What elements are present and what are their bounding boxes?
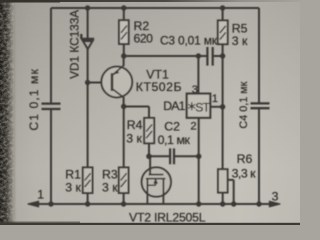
- wire C3 right to R5 node: [213, 55, 223, 57]
- wire VD1 anode lead from top rail: [87, 8, 89, 39]
- svg-text:3 к: 3 к: [126, 132, 142, 146]
- VT2 drain leg: [162, 179, 164, 204]
- svg-text:С3 0,01 мк: С3 0,01 мк: [160, 33, 218, 47]
- svg-text:2: 2: [190, 120, 196, 132]
- wire DA1 pin2 lead: [198, 118, 200, 204]
- capacitor C1: [42, 104, 61, 109]
- wire left branch lower (C1 bottom lead): [50, 109, 52, 204]
- terminal 3 arrow: [269, 201, 280, 207]
- VT2 gate electrode: [149, 174, 164, 176]
- resistor R5: [218, 20, 228, 44]
- wire right branch upper: [258, 8, 260, 103]
- svg-text:ST: ST: [195, 101, 210, 115]
- node C3/R5 junction: [220, 53, 225, 58]
- IC DA1: [187, 94, 211, 118]
- wire emitter net: [124, 55, 208, 57]
- wire gate net: [149, 155, 170, 157]
- wire DA1 pin1 lead: [210, 106, 222, 108]
- capacitor C2: [170, 148, 174, 164]
- wire VD1 to base node: [87, 49, 89, 168]
- node R6 bottom rail: [220, 201, 225, 206]
- svg-text:C1 0,1 мк: C1 0,1 мк: [27, 68, 41, 130]
- node collector junction: [121, 104, 126, 109]
- node R1 bottom rail: [85, 201, 90, 206]
- VT2 channel bar: [146, 178, 166, 180]
- resistor R1: [83, 167, 93, 193]
- wire collector to R4: [124, 107, 149, 118]
- svg-text:3,3 к: 3,3 к: [232, 167, 257, 181]
- bottom photo edge: [0, 223, 300, 225]
- zener diode VD1 anode triangle: [83, 41, 93, 49]
- wire left branch upper (C1 top lead): [50, 8, 52, 104]
- wire C2 right to pin2 line: [174, 155, 199, 157]
- svg-text:КТ502Б: КТ502Б: [136, 80, 182, 94]
- DA1 asterisk: [188, 102, 195, 110]
- svg-text:R1: R1: [65, 167, 81, 181]
- node right branch rail: [256, 201, 261, 206]
- terminal 1 arrow: [28, 201, 39, 207]
- svg-text:R3: R3: [102, 167, 118, 181]
- node R6 tap rail: [231, 201, 236, 206]
- VT2 source leg: [146, 179, 148, 204]
- svg-text:R6: R6: [237, 152, 253, 166]
- node VD1 top: [85, 5, 90, 10]
- node R5 top: [220, 5, 225, 10]
- node C1 bottom rail: [48, 201, 53, 206]
- svg-text:3 к: 3 к: [102, 181, 118, 195]
- svg-text:3: 3: [272, 189, 279, 203]
- svg-text:VD1 КС133А: VD1 КС133А: [67, 10, 81, 79]
- top photo edge: [0, 0, 1, 1]
- svg-text:DA1: DA1: [163, 99, 185, 113]
- svg-text:3 к: 3 к: [232, 34, 248, 48]
- node pin2/gate junction: [196, 154, 201, 159]
- node R4/gate junction: [146, 154, 152, 160]
- svg-text:C2: C2: [164, 120, 180, 134]
- svg-text:R4: R4: [127, 118, 143, 132]
- wire R5/C3 node down to R6: [222, 56, 224, 169]
- node base junction: [85, 80, 90, 85]
- node pin2 bottom rail: [196, 201, 201, 206]
- resistor R3: [119, 167, 129, 193]
- wire R1 bottom lead: [87, 193, 89, 204]
- resistor R4: [144, 118, 154, 143]
- svg-text:0,1 мк: 0,1 мк: [158, 133, 191, 147]
- svg-text:VT2 IRL2505L: VT2 IRL2505L: [129, 210, 206, 224]
- wire R6 side tap: [228, 180, 234, 204]
- svg-text:1: 1: [212, 93, 218, 105]
- wire base: [88, 82, 112, 84]
- capacitor C4: [251, 103, 270, 108]
- VT2 gate lead: [149, 156, 151, 175]
- node R2 top: [121, 5, 126, 10]
- svg-text:620: 620: [134, 32, 154, 46]
- VT2 substrate stub with arrow: [147, 179, 155, 185]
- svg-text:1: 1: [37, 188, 44, 202]
- svg-text:3 к: 3 к: [65, 181, 81, 195]
- svg-text:C4 0,1 мк: C4 0,1 мк: [238, 81, 250, 128]
- transistor VT1: [101, 67, 132, 98]
- left page spine shadow: [0, 0, 17, 225]
- capacitor C3: [207, 47, 212, 66]
- zener diode VD1 cathode bar: [81, 34, 94, 39]
- node emitter / R2: [121, 53, 126, 58]
- node R3 bottom rail: [121, 201, 126, 206]
- resistor R6: [218, 169, 228, 192]
- node pin1 junction: [220, 104, 225, 109]
- wire DA1 pin3 lead: [197, 56, 199, 94]
- resistor R2: [123, 8, 125, 20]
- wire right branch lower: [258, 108, 260, 204]
- svg-text:3: 3: [192, 84, 198, 96]
- transistor VT2 MOSFET: [142, 167, 171, 196]
- wire bottom rail: [33, 203, 270, 205]
- node DA1 pin3 tap: [196, 53, 201, 58]
- wire top rail: [51, 7, 259, 9]
- wire collector down to R3: [123, 107, 125, 168]
